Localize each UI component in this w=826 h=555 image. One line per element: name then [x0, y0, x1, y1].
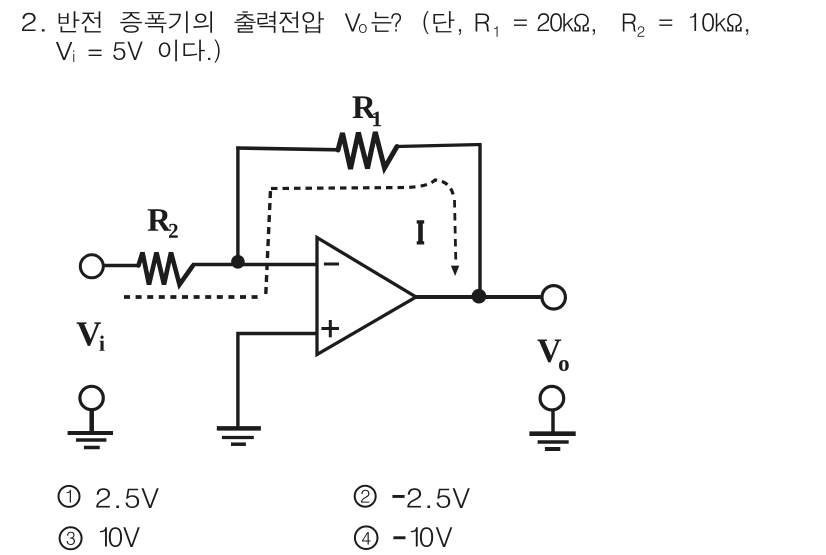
wire feedback right vertical down to output node	[478, 145, 481, 297]
wire input terminal to R2	[105, 264, 140, 268]
Vo terminal stem	[551, 410, 555, 432]
current arrowhead	[451, 266, 459, 276]
op-amp minus sign	[324, 263, 339, 266]
junction node at inverting input	[231, 255, 245, 269]
dashed current path left vertical	[266, 190, 271, 294]
label I (current)	[417, 220, 425, 244]
wire R2 to op-amp inverting input	[192, 263, 317, 267]
wire feedback top right segment	[397, 145, 482, 147]
resistor R2	[139, 253, 194, 285]
Vi source terminal circle	[80, 386, 103, 409]
option 3 text 10V	[100, 527, 107, 546]
Vi terminal stem	[89, 410, 94, 431]
input terminal (open circle)	[80, 255, 103, 278]
option 3 marker	[60, 527, 82, 549]
option 2 text -2.5V	[392, 495, 404, 498]
label R1	[353, 96, 377, 118]
label R2	[148, 209, 172, 231]
option 4 text -10V	[393, 536, 405, 539]
output terminal (open circle)	[542, 286, 565, 309]
dashed current path right vertical	[455, 200, 456, 261]
resistor R1	[338, 132, 397, 169]
wire node up to feedback	[236, 146, 239, 263]
dashed current path bottom segment	[124, 295, 261, 299]
option 1 marker	[59, 486, 80, 507]
ground under Vi	[68, 431, 113, 435]
option 1 text 2.5V	[96, 488, 159, 508]
label Vi	[77, 322, 101, 345]
label Vo	[537, 340, 561, 363]
dashed current path top segment	[271, 180, 454, 198]
question text line 1	[22, 11, 748, 37]
Vo terminal circle	[540, 386, 564, 410]
option 4 marker	[355, 526, 378, 549]
question text line 2	[56, 39, 220, 62]
output node	[472, 289, 487, 304]
op-amp plus sign	[321, 327, 339, 330]
ground at non-inverting input	[217, 426, 261, 431]
option 2 marker	[355, 486, 376, 507]
wire feedback top left segment	[236, 148, 338, 150]
ground under Vo	[529, 431, 575, 436]
wire non-inverting input to ground	[238, 334, 317, 427]
wire op-amp output to output terminal	[414, 295, 541, 299]
op-amp U1	[317, 238, 416, 355]
